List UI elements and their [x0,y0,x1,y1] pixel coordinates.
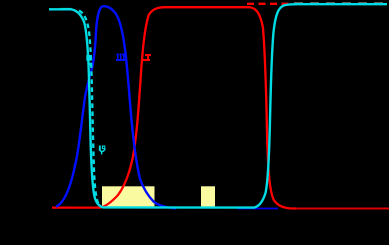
shaded region (left wall band) [102,186,155,207]
cyan dash overlay on top-left plateau [61,8,72,10]
blue baseline segment [237,208,278,210]
cyan curve (phi field) [49,4,387,207]
red dashed continuation under cyan top line [294,2,387,4]
red dashed curve (mirror solution, top right) [247,3,292,5]
label phi (cyan, drawn glyph) [99,146,105,155]
cyan data-point marker on phi descent [86,55,92,61]
cyan dashed curve (mirror phi, left descent) [79,11,99,205]
red curve (sigma field) [52,7,296,208]
label sigma (red, serif-I glyph) [143,54,151,61]
blue curve (omega field bump) [56,6,176,208]
label omega (blue, three-stem glyph) [116,54,125,61]
red baseline segment (right) [294,208,389,210]
shaded region (small right band) [201,186,215,207]
